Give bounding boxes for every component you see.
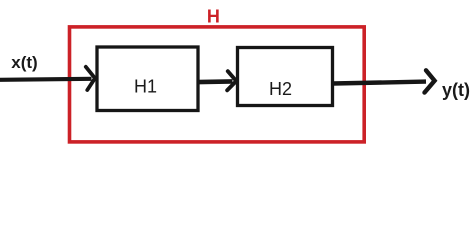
svg-text:x(t): x(t) (11, 53, 37, 72)
svg-text:H1: H1 (134, 77, 157, 97)
svg-text:y(t): y(t) (442, 80, 470, 100)
svg-text:H2: H2 (269, 79, 292, 99)
svg-text:H: H (207, 6, 220, 26)
